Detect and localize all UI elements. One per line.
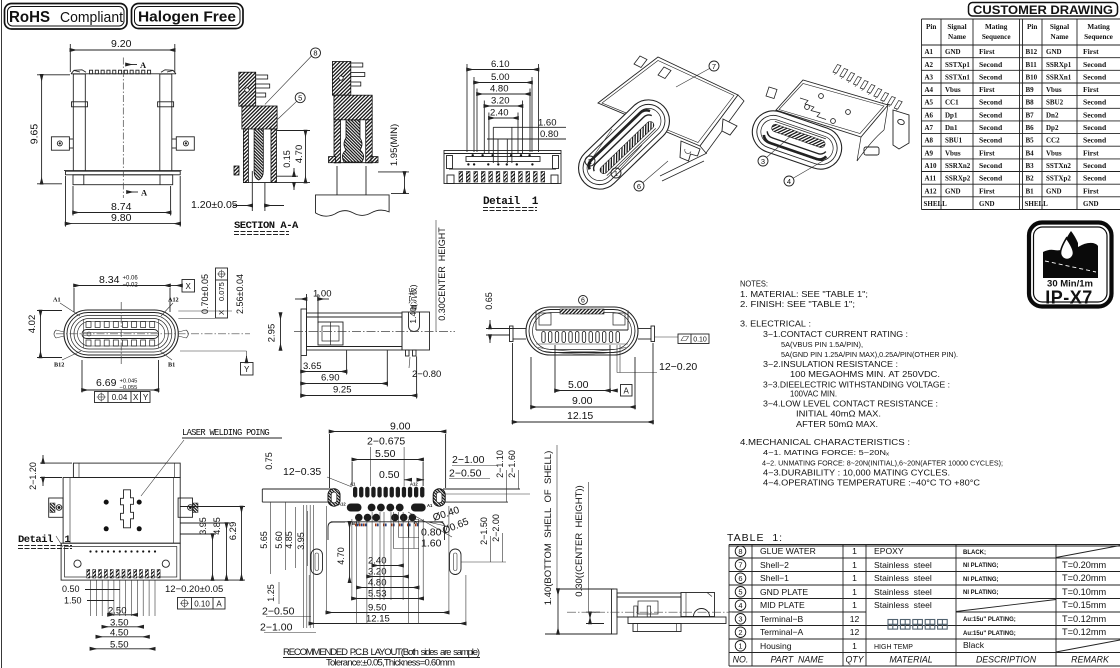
svg-text:Stainless steel: Stainless steel	[874, 560, 932, 570]
svg-text:1: 1	[738, 641, 742, 650]
svg-text:2. FINISH: SEE "TABLE 1";: 2. FINISH: SEE "TABLE 1";	[740, 300, 855, 309]
balloon 3	[758, 156, 768, 166]
svg-text:Signal: Signal	[947, 23, 966, 31]
svg-text:First: First	[979, 148, 995, 157]
front view: dim 9.20	[70, 44, 175, 72]
dim 5.00	[474, 82, 532, 84]
colored tick marks	[355, 524, 357, 527]
svg-text:Second: Second	[979, 72, 1003, 81]
svg-text:3−3.DIEELECTRIC WITHSTANDING V: 3−3.DIEELECTRIC WITHSTANDING VOLTAGE :	[763, 380, 950, 389]
svg-text:Dn2: Dn2	[1046, 111, 1059, 119]
svg-text:First: First	[1083, 85, 1099, 94]
svg-text:8: 8	[313, 49, 317, 58]
tiny pad labels	[338, 482, 433, 527]
svg-text:A9: A9	[925, 149, 934, 157]
back-left shell tab	[766, 87, 777, 99]
svg-text:SSRXn1: SSRXn1	[1046, 73, 1072, 81]
torn paper	[316, 195, 390, 216]
svg-text:1: 1	[614, 169, 618, 178]
svg-text:4.85: 4.85	[212, 517, 222, 535]
side view centerline	[294, 331, 455, 333]
breakout lines below	[316, 166, 390, 216]
svg-text:2−0.675: 2−0.675	[367, 436, 405, 448]
bottom shell edge	[660, 153, 707, 181]
svg-text:NI PLATING;: NI PLATING;	[963, 577, 999, 583]
solder hook	[680, 141, 700, 161]
svg-text:B2: B2	[1026, 175, 1035, 183]
svg-text:A1: A1	[427, 503, 433, 508]
svg-text:B12: B12	[1026, 48, 1038, 56]
right iso terminal comb	[833, 65, 841, 74]
svg-text:MID PLATE: MID PLATE	[760, 600, 805, 610]
svg-text:GND: GND	[1046, 48, 1062, 56]
svg-text:BLACK;: BLACK;	[963, 550, 986, 556]
pcb outline lines left	[262, 489, 443, 540]
rear lower shield curves	[536, 344, 628, 354]
svg-text:B9: B9	[1026, 86, 1035, 94]
svg-text:B7: B7	[1026, 111, 1035, 119]
dim 1.60	[493, 126, 566, 128]
svg-text:4−3.DURABILITY : 10,000 MATING: 4−3.DURABILITY : 10,000 MATING CYCLES.	[763, 469, 950, 478]
svg-text:5A(VBUS PIN 1.5A/PIN),: 5A(VBUS PIN 1.5A/PIN),	[781, 340, 863, 349]
svg-text:SBU2: SBU2	[1046, 99, 1064, 107]
svg-text:Vbus: Vbus	[945, 149, 961, 157]
left iso rubber mouth seal	[570, 91, 678, 198]
svg-text:B12: B12	[54, 362, 64, 369]
svg-text:1.40(BOTTOM SHELL OF SHELL): 1.40(BOTTOM SHELL OF SHELL)	[543, 451, 554, 606]
svg-text:EPOXY: EPOXY	[874, 546, 904, 556]
svg-text:B1: B1	[168, 362, 175, 369]
svg-text:7: 7	[738, 560, 742, 569]
sheet frame left edge	[1, 0, 3, 668]
svg-text:5: 5	[738, 587, 742, 596]
svg-text:Second: Second	[1083, 72, 1107, 81]
dim 2.40	[489, 117, 518, 119]
svg-text:2−1.10: 2−1.10	[495, 450, 505, 478]
weld dots	[104, 500, 109, 505]
svg-text:Second: Second	[979, 123, 1003, 132]
svg-text:0.75: 0.75	[264, 452, 274, 470]
svg-text:1.50: 1.50	[64, 596, 82, 606]
svg-text:0.30CENTER HEIGHT: 0.30CENTER HEIGHT	[437, 227, 447, 321]
svg-text:B8: B8	[1026, 99, 1035, 107]
center zigzag slot	[121, 490, 134, 528]
shell back fingers	[634, 56, 647, 68]
svg-text:0.70±0.05: 0.70±0.05	[200, 274, 210, 314]
svg-text:2: 2	[588, 157, 592, 166]
svg-text:GND: GND	[1083, 200, 1099, 208]
datum X box	[182, 280, 195, 293]
svg-text:CC2: CC2	[1046, 137, 1060, 145]
svg-text:SHELL: SHELL	[1025, 200, 1049, 208]
svg-text:Terminal−A: Terminal−A	[760, 627, 803, 637]
svg-text:B11: B11	[1026, 61, 1038, 69]
svg-text:9.00: 9.00	[572, 395, 593, 407]
svg-text:9.50: 9.50	[368, 603, 387, 614]
svg-text:Dn1: Dn1	[945, 124, 958, 132]
svg-text:GND: GND	[945, 48, 961, 56]
svg-text:2−1.60: 2−1.60	[507, 450, 517, 478]
svg-text:A: A	[140, 60, 147, 70]
svg-text:Name: Name	[1051, 33, 1069, 41]
dim 0.80	[487, 138, 566, 140]
svg-text:4: 4	[738, 601, 742, 610]
svg-text:7: 7	[712, 62, 716, 71]
svg-text:LASER WELDING POING: LASER WELDING POING	[182, 428, 269, 438]
svg-text:6.90: 6.90	[321, 373, 340, 384]
svg-text:Second: Second	[1083, 98, 1107, 107]
svg-text:1.25: 1.25	[266, 584, 276, 602]
svg-text:First: First	[979, 47, 995, 56]
svg-text:GND: GND	[945, 187, 961, 195]
pcb pads top row	[353, 487, 357, 498]
front view: dim 9.80	[66, 176, 181, 227]
svg-text:6: 6	[637, 182, 641, 191]
svg-text:Compliant: Compliant	[60, 10, 123, 26]
reference dots	[472, 154, 474, 156]
svg-text:B10: B10	[1026, 73, 1038, 81]
svg-text:1.40(沉板): 1.40(沉板)	[408, 284, 418, 323]
svg-text:5.00: 5.00	[568, 379, 589, 391]
sv2 centerline	[567, 611, 732, 613]
svg-text:1.00: 1.00	[313, 289, 332, 300]
svg-text:Au:15u" PLATING;: Au:15u" PLATING;	[963, 631, 1016, 637]
svg-text:4.02: 4.02	[27, 315, 38, 334]
svg-text:0.15: 0.15	[282, 150, 292, 168]
svg-text:Detail 1: Detail 1	[483, 196, 539, 208]
svg-text:1.60: 1.60	[421, 538, 442, 550]
svg-text:NO.: NO.	[733, 654, 749, 664]
svg-text:A2: A2	[925, 61, 934, 69]
svg-text:SSTXn1: SSTXn1	[945, 73, 970, 81]
svg-text:12: 12	[850, 627, 860, 637]
bottom assembly	[61, 543, 180, 580]
svg-text:SSTXp1: SSTXp1	[945, 61, 970, 69]
svg-text:A6: A6	[925, 111, 934, 119]
svg-text:B1: B1	[1026, 187, 1035, 195]
rear view shells	[526, 307, 638, 355]
svg-text:Second: Second	[1083, 161, 1107, 170]
detail 1 terminals	[459, 172, 463, 183]
rear terminal slots	[542, 332, 545, 343]
svg-text:Halogen Free: Halogen Free	[138, 10, 236, 26]
isometric views	[570, 56, 909, 198]
svg-text:Vbus: Vbus	[1046, 149, 1062, 157]
svg-text:Dp2: Dp2	[1046, 124, 1059, 132]
svg-text:T=0.15mm: T=0.15mm	[1062, 600, 1107, 610]
pcb oval holes	[311, 549, 323, 575]
bottom latch	[864, 147, 879, 155]
svg-text:CC1: CC1	[945, 99, 959, 107]
svg-text:DESCRIPTION: DESCRIPTION	[976, 654, 1037, 664]
svg-text:REMARK: REMARK	[1071, 654, 1110, 664]
svg-text:0.075: 0.075	[217, 282, 226, 301]
svg-text:1: 1	[852, 641, 857, 651]
svg-text:Terminal−B: Terminal−B	[760, 614, 803, 624]
svg-text:6: 6	[581, 298, 585, 305]
svg-text:GND PLATE: GND PLATE	[760, 587, 808, 597]
svg-text:NOTES:: NOTES:	[740, 280, 768, 289]
Halogen Free badge	[132, 4, 244, 29]
svg-text:SECTION A-A: SECTION A-A	[234, 220, 299, 232]
datum Y box	[180, 350, 247, 352]
svg-text:Second: Second	[979, 136, 1003, 145]
side view	[294, 220, 455, 399]
svg-text:CUSTOMER DRAWING: CUSTOMER DRAWING	[973, 3, 1113, 17]
dim 4.80	[477, 93, 530, 95]
svg-text:HIGH TEMP: HIGH TEMP	[874, 644, 913, 651]
section A-A	[191, 48, 409, 235]
rear inner shelf	[536, 309, 628, 330]
svg-text:QTY: QTY	[845, 654, 864, 664]
svg-text:1: 1	[852, 546, 857, 556]
svg-text:6: 6	[738, 574, 742, 583]
svg-text:4−1. MATING FORCE: 5~20Nₓ: 4−1. MATING FORCE: 5~20Nₓ	[763, 448, 890, 457]
svg-text:2.56±0.04: 2.56±0.04	[235, 274, 245, 314]
svg-text:Y: Y	[244, 365, 250, 374]
pcb layout	[259, 421, 530, 668]
svg-text:SSRXp2: SSRXp2	[945, 175, 971, 183]
balloon 8	[311, 48, 321, 58]
balloon 7	[709, 61, 719, 71]
svg-text:2: 2	[738, 628, 742, 637]
svg-text:Housing: Housing	[760, 641, 792, 651]
svg-text:0.50: 0.50	[379, 469, 400, 481]
svg-text:PART NAME: PART NAME	[771, 654, 824, 664]
dim 6.10	[467, 69, 539, 71]
svg-text:T=0.20mm: T=0.20mm	[1062, 573, 1107, 583]
long verticals left cluster	[303, 505, 313, 628]
svg-text:1.95(MIN): 1.95(MIN)	[389, 124, 400, 166]
svg-text:12.15: 12.15	[567, 410, 593, 422]
right reference lines	[178, 310, 232, 312]
svg-text:12−0.35: 12−0.35	[283, 466, 321, 478]
dim 3.20	[484, 105, 522, 107]
svg-text:3: 3	[761, 157, 765, 166]
TABLE 1 parts list	[727, 532, 1120, 666]
pcb row2 pads	[347, 504, 362, 512]
svg-text:0.04: 0.04	[112, 393, 128, 402]
face view contacts bottom row	[86, 340, 91, 346]
svg-text:Second: Second	[1083, 174, 1107, 183]
svg-text:6.10: 6.10	[491, 59, 510, 70]
svg-text:+0.06: +0.06	[123, 276, 139, 282]
svg-text:12−0.20±0.05: 12−0.20±0.05	[165, 584, 223, 595]
face view tongue	[82, 330, 159, 339]
position frame	[95, 392, 151, 403]
svg-text:Second: Second	[979, 110, 1003, 119]
svg-text:First: First	[979, 85, 995, 94]
svg-text:Sequence: Sequence	[1084, 33, 1113, 41]
svg-text:100VAC MIN.: 100VAC MIN.	[790, 390, 837, 399]
face view shells	[64, 310, 178, 358]
svg-text:A4: A4	[925, 86, 934, 94]
svg-text:IP-X7: IP-X7	[1045, 288, 1093, 308]
svg-text:4.MECHANICAL CHARACTERISTICS :: 4.MECHANICAL CHARACTERISTICS :	[740, 438, 910, 447]
svg-text:1: 1	[852, 587, 857, 597]
svg-text:Black: Black	[963, 640, 985, 650]
svg-text:9.00: 9.00	[390, 421, 411, 433]
svg-text:MATERIAL: MATERIAL	[889, 654, 932, 664]
svg-text:A12: A12	[338, 502, 346, 507]
sv2 body	[612, 589, 727, 634]
svg-text:5A(GND PIN 1.25A/PIN MAX),0.25: 5A(GND PIN 1.25A/PIN MAX),0.25A/PIN(OTHE…	[781, 350, 958, 359]
svg-text:2−0.50: 2−0.50	[449, 468, 482, 480]
svg-text:Name: Name	[948, 33, 966, 41]
svg-text:A7: A7	[925, 124, 934, 132]
svg-text:9.20: 9.20	[111, 38, 132, 50]
rear view balloon 6	[579, 296, 588, 305]
svg-text:A12: A12	[410, 482, 418, 487]
svg-text:Shell−2: Shell−2	[760, 560, 789, 570]
svg-text:12.15: 12.15	[366, 614, 390, 625]
svg-text:Second: Second	[979, 174, 1003, 183]
pin fan lines	[90, 580, 92, 616]
svg-text:B6: B6	[1026, 124, 1035, 132]
front view top-left	[29, 38, 195, 227]
front view: section mark A-A	[126, 64, 137, 66]
section A-A right cut	[329, 62, 379, 163]
front view: shell body	[51, 70, 194, 185]
svg-text:6.29: 6.29	[228, 522, 239, 541]
svg-text:3−2.INSULATION RESISTANCE :: 3−2.INSULATION RESISTANCE :	[763, 360, 898, 369]
svg-text:First: First	[1083, 186, 1099, 195]
svg-text:Mating: Mating	[985, 23, 1008, 31]
bottom view body	[63, 463, 180, 543]
svg-text:0.50: 0.50	[62, 584, 80, 594]
svg-text:B3: B3	[1026, 162, 1035, 170]
svg-text:2.95: 2.95	[267, 324, 278, 343]
svg-text:NI PLATING;: NI PLATING;	[963, 563, 999, 569]
svg-text:Second: Second	[979, 60, 1003, 69]
svg-text:0.65: 0.65	[484, 292, 494, 310]
left isometric connector: top cover plate	[598, 56, 744, 181]
svg-text:3.65: 3.65	[303, 361, 322, 372]
bottom view	[18, 428, 282, 651]
svg-text:SBU1: SBU1	[945, 137, 963, 145]
pcb row3 pads	[355, 514, 363, 522]
detail 1 body	[444, 151, 561, 184]
svg-text:5.00: 5.00	[491, 72, 510, 83]
svg-text:Stainless steel: Stainless steel	[874, 600, 932, 610]
svg-text:AFTER 50mΩ MAX.: AFTER 50mΩ MAX.	[796, 420, 878, 429]
pin position labels	[53, 297, 179, 369]
svg-text:3.20: 3.20	[491, 96, 510, 107]
section A-A left cut	[234, 72, 277, 182]
svg-text:2−1.20: 2−1.20	[28, 462, 38, 490]
svg-text:Pin: Pin	[1027, 23, 1037, 31]
svg-text:12: 12	[850, 614, 860, 624]
svg-text:0.30((CENTER HEIGHT)): 0.30((CENTER HEIGHT))	[574, 485, 585, 596]
svg-text:Pin: Pin	[926, 23, 936, 31]
svg-text:+0.045: +0.045	[120, 379, 138, 385]
svg-text:4: 4	[787, 177, 791, 186]
svg-text:A11: A11	[925, 175, 937, 183]
face view contacts top row	[86, 322, 91, 328]
bottom right side view	[543, 445, 732, 634]
pin assignment table	[922, 19, 1120, 210]
svg-text:3.95: 3.95	[198, 517, 208, 535]
right iso pcb bracket	[893, 110, 909, 149]
svg-text:2.40: 2.40	[490, 108, 509, 119]
assembly contact dots	[89, 550, 91, 552]
svg-text:9.80: 9.80	[111, 212, 132, 224]
svg-text:T=0.12mm: T=0.12mm	[1062, 614, 1107, 624]
RoHS Compliant badge	[5, 4, 128, 30]
svg-text:2−0.80: 2−0.80	[412, 369, 441, 380]
svg-text:X: X	[186, 282, 192, 291]
svg-text:Vbus: Vbus	[1046, 86, 1062, 94]
svg-text:A1: A1	[350, 482, 356, 487]
balloon 6	[634, 181, 644, 191]
svg-text:8: 8	[738, 547, 742, 556]
svg-text:RoHS: RoHS	[9, 9, 50, 26]
svg-text:3−1.CONTACT CURRENT RATING :: 3−1.CONTACT CURRENT RATING :	[763, 330, 908, 339]
rear wings	[510, 326, 655, 342]
svg-text:Signal: Signal	[1050, 23, 1069, 31]
detail 1 top view	[444, 59, 566, 211]
svg-text:INITIAL 40mΩ MAX.: INITIAL 40mΩ MAX.	[796, 410, 881, 419]
face view side springs	[54, 330, 64, 338]
svg-text:T=0.20mm: T=0.20mm	[1062, 560, 1107, 570]
svg-text:9.25: 9.25	[333, 385, 352, 396]
svg-text:A: A	[624, 387, 630, 396]
svg-text:Second: Second	[1083, 136, 1107, 145]
svg-text:2−1.00: 2−1.00	[260, 622, 293, 634]
svg-text:4.80: 4.80	[490, 84, 509, 95]
front view: center line	[122, 58, 124, 199]
svg-text:1: 1	[852, 573, 857, 583]
svg-text:TABLE 1:: TABLE 1:	[727, 532, 783, 544]
face view	[27, 268, 281, 403]
svg-text:0.10: 0.10	[194, 600, 210, 609]
svg-text:4−2. UNMATING FORCE: 8~20N(INI: 4−2. UNMATING FORCE: 8~20N(INITIAL),6~20…	[762, 458, 1003, 467]
svg-text:Second: Second	[1083, 123, 1107, 132]
svg-text:1: 1	[852, 560, 857, 570]
svg-text:Second: Second	[1083, 60, 1107, 69]
label 1.40 (counterbore)	[408, 284, 418, 323]
svg-text:3: 3	[738, 614, 742, 623]
svg-text:Dp1: Dp1	[945, 111, 958, 119]
extension verticals center	[309, 506, 466, 624]
pcb side pads	[328, 489, 445, 507]
svg-text:A1: A1	[925, 48, 934, 56]
svg-text:Detail 1: Detail 1	[18, 534, 70, 546]
svg-text:A: A	[141, 188, 148, 198]
position frame 0.10 A	[178, 598, 226, 610]
svg-text:A5: A5	[925, 99, 934, 107]
svg-text:GND: GND	[1046, 187, 1062, 195]
svg-text:Second: Second	[979, 98, 1003, 107]
svg-text:Y: Y	[143, 393, 149, 402]
balloon 1	[611, 168, 621, 178]
svg-text:5: 5	[298, 94, 302, 103]
svg-text:4.70: 4.70	[336, 547, 346, 565]
svg-text:Au:15u" PLATING;: Au:15u" PLATING;	[963, 617, 1016, 623]
svg-text:GLUE WATER: GLUE WATER	[760, 546, 816, 556]
svg-text:SSTXp2: SSTXp2	[1046, 175, 1071, 183]
CUSTOMER DRAWING title box	[969, 3, 1118, 17]
svg-text:SHELL: SHELL	[924, 200, 948, 208]
svg-text:2−1.00: 2−1.00	[452, 454, 485, 466]
assembly comb	[87, 570, 90, 579]
svg-text:100 MEGAOHMS MIN. AT 250VDC.: 100 MEGAOHMS MIN. AT 250VDC.	[790, 370, 940, 379]
svg-text:5.50: 5.50	[375, 448, 396, 460]
svg-text:0.10: 0.10	[693, 337, 707, 344]
svg-text:A10: A10	[925, 162, 938, 170]
svg-text:2−2.00: 2−2.00	[491, 514, 501, 542]
svg-text:First: First	[979, 186, 995, 195]
